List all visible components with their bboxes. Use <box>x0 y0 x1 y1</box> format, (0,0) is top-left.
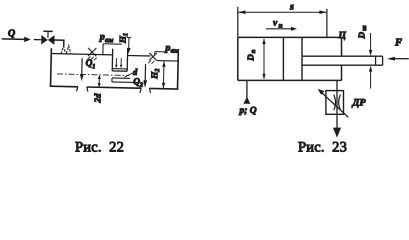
svg-text:D: D <box>357 32 367 40</box>
svg-text:p: p <box>99 32 105 43</box>
svg-text:Рис. 23: Рис. 23 <box>298 140 347 156</box>
svg-text:ш: ш <box>361 25 368 31</box>
svg-text:Рис. 22: Рис. 22 <box>75 140 124 156</box>
svg-text:p; Q: p; Q <box>239 106 257 116</box>
svg-text:v: v <box>273 19 278 29</box>
svg-text:F: F <box>394 38 402 49</box>
svg-text:2: 2 <box>154 68 161 73</box>
svg-text:2d: 2d <box>92 93 102 104</box>
svg-text:ам: ам <box>171 46 180 54</box>
svg-text:Ц: Ц <box>338 31 347 41</box>
svg-text:ам: ам <box>105 36 114 44</box>
svg-text:п: п <box>250 49 257 53</box>
svg-text:1: 1 <box>122 33 129 36</box>
svg-text:s: s <box>289 2 294 13</box>
svg-text:D: D <box>246 54 256 62</box>
svg-text:2: 2 <box>139 82 144 89</box>
svg-text:d: d <box>133 67 138 77</box>
svg-text:ДР: ДР <box>352 98 367 109</box>
svg-text:1: 1 <box>92 63 95 70</box>
svg-text:Q: Q <box>8 28 15 39</box>
